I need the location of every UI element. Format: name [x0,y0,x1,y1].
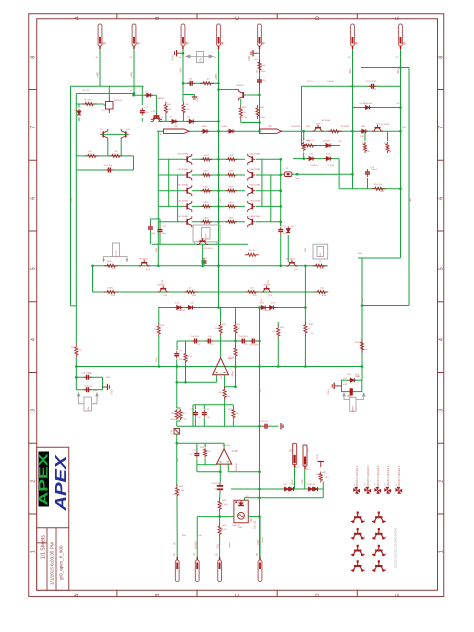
wire Q2 collector to rail [219,89,239,91]
resistor R57 1k [303,144,317,147]
capacitor C8 100p [105,168,113,173]
wire row 4 right emitter [219,205,246,207]
wire left rail jog [71,305,77,307]
svg-text:GND: GND [185,43,190,45]
transistor Q11 KSA992 [121,129,129,140]
wire row 1 emitter [192,158,219,160]
junction rail Q2 [217,88,220,91]
svg-text:9-5uA: 9-5uA [327,80,333,83]
wire below C10 [159,235,161,245]
diode D18 1N4448 [308,487,314,491]
resistor R40 500k [256,105,259,119]
svg-text:KSC3503: KSC3503 [285,259,295,261]
diode D4 MBR0540 [77,109,81,115]
junction Q20 [201,265,204,268]
wire below y366 right [361,367,363,381]
wire x158 lower a [158,308,160,325]
svg-text:GM5: GM5 [238,527,244,529]
svg-text:100231: 100231 [233,367,241,369]
opto pin dot [235,501,237,503]
spare transistor T3 [351,530,365,538]
transistor Q4 KSC2690A [184,170,192,181]
connector X8 [293,444,297,468]
svg-text:5: 5 [31,267,37,270]
wire y489 horizontal [231,488,323,490]
wire x305 upper [304,266,306,323]
junction right jog [361,304,364,307]
svg-text:+48V: +48V [71,197,73,203]
resistor R29 10k [234,345,237,359]
svg-text:GND: GND [261,43,266,45]
svg-text:-48V: -48V [396,68,400,74]
ground tee T1 [318,462,325,468]
wire row 3 left [158,190,184,192]
resistor R7 7k5 [82,102,96,105]
wire x233 b [232,420,234,426]
svg-text:BC556B: BC556B [381,124,390,126]
wire y366 long horizontal [76,366,362,368]
wire y471 left [197,471,220,473]
svg-text:X4-1: X4-1 [295,467,300,469]
wire op1 +in stub [224,375,226,387]
transistor Q6 KSC2690A [184,185,192,196]
svg-text:gr0_apex_h_900: gr0_apex_h_900 [59,545,64,580]
wire row 3 right base [256,190,282,192]
capacitor C27 on box bottom [350,388,353,395]
svg-text:100p: 100p [151,233,157,235]
svg-text:X9: X9 [306,448,310,452]
junction y341 bus [258,340,261,343]
capacitor C25 5uF [257,77,262,85]
wire rail from X6 [352,49,354,189]
svg-text:22u/25Vb: 22u/25Vb [238,336,248,338]
svg-text:6: 6 [439,197,445,200]
svg-text:GND: GND [248,56,251,62]
spare transistor T8 [372,562,386,570]
wire y426 horizontal [177,425,263,427]
svg-text:22u/25Vb: 22u/25Vb [249,345,259,347]
junction X5 rail [258,94,261,97]
wire y258 horizontal [358,257,401,259]
svg-text:KSA1220AY: KSA1220AY [250,199,262,202]
connector X6 [351,24,355,49]
junction bus y516 [258,515,261,518]
svg-text:agnd: agnd [229,542,231,548]
transistor Q3 KSC2690A [184,154,192,165]
gray label TO220 [350,397,356,411]
junction x235 y366 [234,365,237,368]
wire left rail to gnd network [75,358,77,377]
wire row 3 right emitter [219,190,246,192]
wire y426 stub [270,425,279,427]
APEX logo black background [39,452,50,507]
resistor R48 500k [258,59,261,73]
junction x76 y366 [75,365,78,368]
wire C22 join [280,262,282,266]
junction y366 d [277,365,280,368]
svg-text:GND: GND [354,43,359,45]
extra density labels [83,43,407,537]
svg-text:P6KE: P6KE [201,126,207,128]
svg-text:1N4148: 1N4148 [263,310,271,312]
wire x305 lower [304,335,306,367]
junction y443 [175,442,178,445]
title table sub divider [37,542,47,544]
connector J5 [218,557,222,582]
transistor Q7 KSC2690A [184,201,192,212]
wire row 1 right base [256,158,282,160]
junction y266 b [157,265,160,268]
wire x301 vertical [301,86,303,145]
fuse F3 MELF [284,172,292,177]
svg-text:470R: 470R [106,261,112,263]
junction X3 gnd tee [182,52,185,55]
wire x193 vertical [192,405,194,427]
wire x278 upper stub [277,322,279,326]
svg-text:+15V: +15V [178,68,182,74]
svg-text:X4-2: X4-2 [306,469,311,471]
resistor R20 56R [219,322,222,336]
svg-text:7: 7 [439,126,445,129]
wire row 1 right emitter [219,158,246,160]
transistor Q18 KSA1381 [248,216,256,227]
wire X9 drop [304,469,306,489]
svg-text:23V: 23V [198,57,202,62]
wire to D4 [78,104,80,108]
svg-text:B: B [155,16,161,20]
gray label box SOT23 R13 [113,243,120,257]
diode D1 P6KE [201,129,209,133]
svg-text:E: E [395,16,401,20]
wire x339 vertical [338,159,340,189]
wire y145 horizontal [302,145,341,147]
wire row 1 left [158,158,184,160]
spare transistor T2 [372,513,386,521]
wire y464 horizontal [197,464,217,466]
capacitor C15 2u2 box [174,429,180,435]
junction right bus [279,158,282,161]
svg-text:P6KE: P6KE [221,126,227,128]
svg-text:KSC2690AY: KSC2690AY [177,168,189,171]
svg-text:100n: 100n [144,112,150,114]
svg-text:GND: GND [136,43,141,45]
junction node A [132,94,135,97]
svg-text:SPW20: SPW20 [353,405,355,413]
wire x92 vertical [92,266,94,292]
resistor R42 0R33 [226,189,237,192]
junction y266 c [217,265,220,268]
measure arrow [186,55,213,58]
svg-text:1/1 Sheets: 1/1 Sheets [41,535,47,559]
diode D2 P6KE [227,129,235,133]
connector J2 [175,557,179,582]
title block logo/table divider [37,527,69,529]
svg-text:4: 4 [31,338,37,341]
spare transistor T5 pads [352,545,363,556]
svg-text:KSA1220AY: KSA1220AY [250,215,262,218]
resistor R44 0R33 [226,220,237,223]
wire right box top [361,67,409,69]
wire below R22 [240,119,242,123]
resistor R30 1k [304,322,307,336]
diode D19 1N4448 [307,157,315,161]
connector X5 [258,24,262,49]
svg-text:KSC3503: KSC3503 [138,259,148,261]
ground GND1 [175,50,181,56]
wire to zobel box [361,375,363,380]
svg-text:5: 5 [439,267,445,270]
svg-text:+48V: +48V [95,72,99,78]
wire to C12 [141,86,143,105]
junction y366 b [176,365,179,368]
wire net +48V from X1 [99,49,101,86]
wire x205 a [204,443,206,447]
wire below R65 [165,115,167,121]
resistor R5 22k [85,154,99,157]
junction x305 y307 [304,306,307,309]
svg-text:APEX: APEX [37,454,51,506]
spare transistor T6 [372,547,386,555]
wire row 2 left [158,174,184,176]
wire row 5 left [158,221,184,223]
junction [182,82,185,85]
capacitor C16 100nF [84,375,92,380]
wire outer right rail [408,68,410,306]
svg-text:SOT23: SOT23 [116,250,118,258]
spare transistor T2 pads [373,512,384,523]
svg-text:C20 1n: C20 1n [306,81,314,83]
wire stub [133,94,135,96]
svg-text:R11 1k: R11 1k [249,250,257,252]
junction x235 y341 [234,340,237,343]
junction [258,121,261,124]
wire x219 c [219,511,221,525]
wire y95 horizontal [134,94,157,96]
resistor R14 1k [313,264,327,267]
svg-text:APEX: APEX [53,453,70,511]
svg-text:8: 8 [31,56,37,59]
svg-text:1/1/2015 6:03:35 PM: 1/1/2015 6:03:35 PM [50,542,55,585]
op-amp IC1A NE5532 [213,358,229,375]
capacitor C24 100nF [84,387,92,392]
resistor R34 0R33 [201,220,212,223]
svg-text:AGND: AGND [193,541,197,549]
wire y497 horizontal [245,497,324,499]
resistor R40 0R33 [226,158,237,161]
wire y516 horizontal [197,516,234,518]
gray bracket SOT23 over R13 [104,257,128,263]
resistor R58 10k [360,339,363,353]
wire x177 to pill J2 [176,498,178,558]
junction x303 y131 [302,130,305,133]
diode D14 1N4148 [259,306,267,310]
junction y174 rail [351,173,354,176]
resistor R46 4k7 [218,523,221,537]
wire x205 b [204,458,206,465]
wire y93 horizontal [76,93,134,95]
connector J6 [258,557,262,582]
junction center bus [217,174,220,177]
wire net +48V from X2 [133,49,135,94]
wire row 5 right emitter [219,221,246,223]
connector X9 [303,445,307,469]
resistor R45 10k [218,498,221,512]
wire left box top [71,85,144,87]
svg-text:VBE: VBE [156,247,158,252]
junction y489 bus [258,488,261,491]
resistor R6 22k [109,154,123,157]
wire y121 horizontal [158,120,218,122]
wire y386 horizontal [225,386,236,388]
wire inner right rail from X7 [400,49,402,258]
junction y174 [296,173,299,176]
transistor Q23 2N5401 [261,286,272,292]
mounting hole H2 [364,487,371,494]
svg-text:1uF: 1uF [197,417,201,419]
capacitor C10 100p [158,227,163,235]
junction right bus [279,189,282,192]
wire x177 long to J2 [176,434,178,486]
connector X3 [181,24,185,49]
svg-text:2SC5200 2SC5200 2SA1943 2SA194: 2SC5200 2SC5200 2SA1943 2SA1943 [395,527,398,568]
capacitor C13 100nF [369,84,377,89]
wire x158 lower b [158,336,160,367]
capacitor C12 100n [140,108,145,116]
svg-text:50mW: 50mW [262,536,264,543]
svg-text:OUT: OUT [256,539,260,545]
svg-text:R8 1k: R8 1k [186,356,193,358]
transistor Q19 BC546B [313,125,324,131]
connector X7 [399,24,403,49]
junction X6 y131 [351,130,354,133]
svg-text:100n: 100n [93,390,99,392]
svg-text:VOL: VOL [216,543,220,549]
capacitor C9 100p [148,224,153,232]
wire right mid vertical [361,258,363,367]
transistor Q2 2N5401 [239,90,247,101]
spare transistor T3 pads [352,528,363,539]
frame inner border [37,19,438,591]
wire to R44 [387,131,389,141]
svg-text:4: 4 [439,338,445,341]
resistor R15 470R [104,290,118,293]
wire row 2 right emitter [219,174,246,176]
title table divider 1 [46,528,48,591]
opto-coupler LDR NSL-32 box [234,500,248,523]
diode D9 SF4007 [324,144,332,148]
resistor R17 1k5 [245,290,259,293]
frame column ticks [117,14,357,597]
diode D18B 1N4448 [313,487,319,491]
wire row 2 emitter [192,174,219,176]
wire Q11 emitter drop [120,140,122,156]
resistor R24 56R [234,322,237,336]
wire gnd net left [75,377,77,390]
wire to C9 [149,219,151,224]
svg-text:LED: LED [361,126,366,128]
junction y366 a [158,365,161,368]
wire y83 horizontal [183,82,219,84]
wire row 3 emitter [192,190,219,192]
resistor R32 0R33 [201,189,212,192]
svg-text:100p: 100p [162,233,168,235]
opto LED element [238,500,244,505]
svg-text:470R: 470R [107,288,113,290]
svg-text:100uF: 100uF [283,233,290,235]
wire x185 a [185,341,187,352]
capacitor C5 1uF [205,339,213,344]
wire box to bus [248,516,259,518]
wire to C22 [280,221,282,226]
svg-text:INB: INB [177,458,179,462]
junction center bus [217,205,220,208]
junction y366 e [361,365,364,368]
svg-text:IC1B: IC1B [232,449,238,453]
junction y366 c [258,365,261,368]
fuse F1 [164,129,190,133]
wire y174 horizontal [281,173,353,175]
svg-text:KSC2690AY: KSC2690AY [177,152,189,155]
svg-text:D: D [315,593,321,597]
svg-text:R56 10k: R56 10k [374,184,383,186]
diode D13 1N4148 [186,306,194,310]
transistor Q17 KSA1220A [248,201,256,212]
wire y158 right horizontal [293,158,339,160]
resistor R37 10R [302,142,305,152]
wire below C22 [280,235,282,263]
svg-text:KSC2690AY: KSC2690AY [177,215,189,218]
svg-text:-48V: -48V [410,197,412,202]
svg-text:1N4148: 1N4148 [177,310,185,312]
wire x177 c [176,421,178,426]
svg-text:GND: GND [111,389,114,395]
wire net +15V from X3 [182,49,184,96]
wire row 4 emitter [192,205,219,207]
ground GND4 [103,384,110,390]
junction x76 box top [75,376,78,379]
polarized mark C21 [281,423,283,430]
junction y516 [218,515,221,518]
junction right inner y107 [399,106,402,109]
svg-text:R2 7k5: R2 7k5 [83,90,91,92]
junction center bus [217,221,220,224]
wire bus to pill J6 [259,517,261,557]
spare transistor T1 [351,513,365,521]
wire x196 a [196,443,198,450]
svg-text:R45 10k: R45 10k [219,504,228,506]
junction x303 y158 [302,157,305,160]
rotated misc labels [156,279,307,379]
resistor R43 0R33 [226,205,237,208]
svg-text:B: B [155,593,161,597]
transistor Q21 KSC3503 [139,260,150,266]
capacitor C7 22u [249,339,257,344]
capacitor C6 22u [239,339,247,344]
resistor R36 82R [328,130,342,133]
capacitor C20 2n2 [262,424,270,429]
svg-text:7: 7 [31,126,37,129]
transistor Q20 KSC3503 [197,238,208,244]
wire y443 horizontal [177,442,224,444]
svg-text:IN: IN [255,70,259,73]
transistor Q1 KSA992 [151,115,162,121]
capacitor C19 1uF [202,410,207,418]
spare transistor T6 pads [373,545,384,556]
wire y156 horizontal [76,155,133,157]
transistor Q9 KSC3503 [184,216,192,227]
wire left ladder rail [157,131,159,266]
wire x219 b [219,492,221,499]
